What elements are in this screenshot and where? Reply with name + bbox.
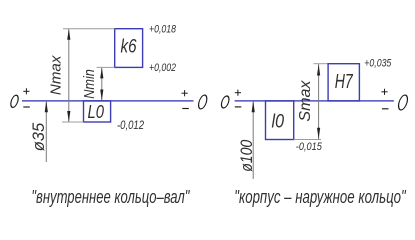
arrow up (d100 leader) xyxy=(252,101,255,113)
label 0 (right end, right diagram) xyxy=(397,95,409,110)
svg-text:l0: l0 xyxy=(272,110,285,132)
extension line at k6 lower limit xyxy=(97,66,115,68)
dimension line Nmin xyxy=(101,68,103,100)
label 0 (left end, right diagram) xyxy=(220,96,230,108)
arrow up (Smax top) xyxy=(317,64,320,75)
plus sign (left end, left diagram) xyxy=(23,88,29,94)
extension line at H7 upper limit xyxy=(314,63,329,65)
zero line (left diagram) xyxy=(22,100,194,102)
svg-text:ø100: ø100 xyxy=(237,139,256,171)
arrow up (Nmin top) xyxy=(100,67,103,78)
svg-text:+0,018: +0,018 xyxy=(149,24,177,36)
svg-text:L0: L0 xyxy=(88,101,105,122)
minus sign (left end, left diagram) xyxy=(23,106,30,108)
svg-text:Nmin: Nmin xyxy=(82,69,98,99)
svg-text:"внутреннее кольцо–вал": "внутреннее кольцо–вал" xyxy=(31,186,190,207)
tolerance box k6 (shaft) xyxy=(115,29,143,68)
arrow down (Nmax bottom) xyxy=(67,111,70,122)
leader line for diameter 35 xyxy=(45,101,47,162)
arrow down (Smax bottom) xyxy=(317,128,320,139)
svg-text:k6: k6 xyxy=(121,36,137,58)
tolerance box l0 (bearing outer ring) xyxy=(266,101,294,140)
svg-text:"корпус – наружное кольцо": "корпус – наружное кольцо" xyxy=(234,186,407,207)
tolerance box L0 (bearing bore) xyxy=(84,101,111,122)
label 0 (left end, left diagram) xyxy=(10,95,20,107)
svg-text:-0,012: -0,012 xyxy=(117,120,144,132)
svg-text:+0,035: +0,035 xyxy=(364,58,392,70)
svg-text:Smax: Smax xyxy=(297,80,314,122)
arrow up (d35 leader) xyxy=(45,101,48,113)
svg-text:ø35: ø35 xyxy=(30,122,48,151)
extension line at l0 lower limit xyxy=(294,139,321,141)
svg-text:Nmax: Nmax xyxy=(48,55,65,95)
minus sign (right end, right diagram) xyxy=(382,108,389,110)
plus sign (right end, left diagram) xyxy=(182,90,188,96)
plus sign (left end, right diagram) xyxy=(235,90,241,96)
extension line at L0 lower limit xyxy=(62,121,84,123)
leader line for diameter 100 xyxy=(252,101,254,179)
svg-text:-0,015: -0,015 xyxy=(296,141,323,153)
svg-text:H7: H7 xyxy=(335,71,354,93)
dimension line Smax xyxy=(318,64,320,139)
tolerance box H7 (housing bore) xyxy=(328,64,359,101)
plus sign (right end, right diagram) xyxy=(381,89,387,95)
minus sign (right end, left diagram) xyxy=(182,108,189,110)
zero line (right diagram) xyxy=(235,100,394,102)
dimension line Nmax xyxy=(68,29,70,121)
svg-text:+0,002: +0,002 xyxy=(149,62,176,74)
arrow up (Nmax top) xyxy=(67,29,70,40)
label 0 (right end, left diagram) xyxy=(197,95,208,109)
extension line at k6 upper limit xyxy=(63,28,115,30)
arrow down (Nmin bottom) xyxy=(100,90,103,101)
minus sign (left end, right diagram) xyxy=(235,106,242,108)
